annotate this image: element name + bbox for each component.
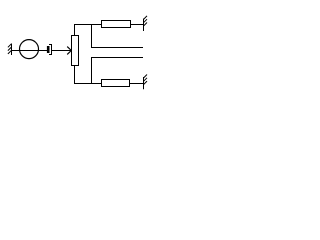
resistor R2 (top box) — [102, 21, 131, 28]
wire (junction on top rail down to upper output rail) — [92, 25, 144, 48]
wire (pot top terminal up and right to resistor R2) — [75, 25, 103, 36]
ground (left chassis ground) — [8, 44, 12, 56]
wire (left wire through source to capacitor) — [12, 50, 48, 52]
capacitor C1 (filled plate + bracket plate) — [47, 44, 52, 55]
wire (capacitor to wiper) — [52, 50, 71, 52]
wire (pot bottom terminal down and right to resistor R3) — [75, 66, 102, 84]
wire (R3 to bottom-right ground) — [130, 83, 144, 85]
ground (bottom-right chassis ground) — [144, 75, 148, 90]
ground (top-right chassis ground) — [144, 16, 148, 31]
resistor R3 (bottom box) — [102, 80, 130, 87]
source V1 (circle) — [20, 40, 39, 59]
wire (R2 to top-right ground) — [131, 24, 144, 26]
potentiometer R1 (box) — [72, 36, 79, 66]
wiper arrow of potentiometer — [67, 47, 71, 55]
wire (lower output rail down to bottom rail) — [92, 58, 144, 84]
